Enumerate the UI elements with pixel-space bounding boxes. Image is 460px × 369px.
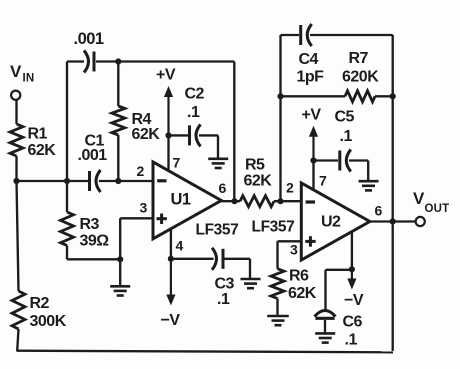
svg-text:7: 7 (319, 173, 327, 189)
svg-text:−V: −V (161, 312, 181, 329)
svg-text:39Ω: 39Ω (80, 233, 110, 250)
svg-text:62K: 62K (244, 173, 273, 190)
svg-text:R5: R5 (245, 157, 265, 174)
svg-text:.001: .001 (78, 147, 108, 164)
svg-text:R7: R7 (349, 50, 369, 67)
svg-text:3: 3 (140, 200, 148, 216)
svg-text:U2: U2 (321, 214, 341, 231)
svg-text:C2: C2 (185, 86, 205, 103)
svg-text:C6: C6 (343, 314, 363, 331)
svg-text:2: 2 (286, 179, 294, 195)
svg-text:V: V (10, 62, 22, 81)
svg-text:OUT: OUT (425, 203, 450, 215)
svg-text:4: 4 (176, 238, 184, 254)
svg-text:+V: +V (302, 107, 322, 124)
svg-text:6: 6 (219, 180, 227, 196)
svg-text:LF357: LF357 (252, 219, 295, 236)
svg-text:V: V (413, 189, 425, 208)
svg-text:62K: 62K (28, 142, 57, 159)
svg-text:C4: C4 (299, 51, 319, 68)
svg-text:R3: R3 (80, 216, 100, 233)
svg-text:62K: 62K (132, 126, 161, 143)
svg-text:−V: −V (344, 292, 364, 309)
svg-text:.1: .1 (217, 291, 230, 308)
svg-text:R1: R1 (28, 126, 48, 143)
svg-text:1pF: 1pF (297, 69, 325, 86)
svg-text:.1: .1 (345, 332, 358, 349)
svg-text:.001: .001 (74, 30, 104, 48)
svg-text:U1: U1 (171, 191, 191, 209)
svg-text:C3: C3 (215, 276, 235, 293)
svg-text:.1: .1 (187, 104, 200, 121)
svg-text:62K: 62K (288, 285, 317, 302)
svg-text:.1: .1 (340, 128, 353, 145)
svg-text:IN: IN (23, 73, 35, 85)
svg-text:R2: R2 (30, 295, 50, 312)
svg-text:300K: 300K (30, 313, 67, 330)
svg-text:LF357: LF357 (196, 222, 239, 239)
svg-text:2: 2 (137, 163, 145, 179)
svg-text:620K: 620K (342, 69, 379, 86)
svg-text:3: 3 (290, 242, 298, 258)
svg-text:+V: +V (156, 67, 176, 84)
svg-text:C5: C5 (335, 109, 355, 126)
svg-text:6: 6 (375, 203, 383, 219)
svg-text:R6: R6 (289, 268, 309, 285)
svg-text:7: 7 (173, 155, 181, 171)
